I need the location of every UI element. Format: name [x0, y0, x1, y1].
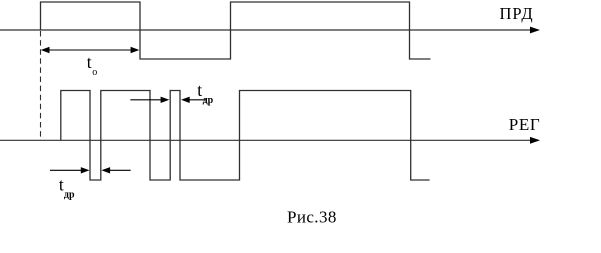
svg-text:др: др: [64, 190, 75, 201]
svg-text:ПРД: ПРД: [500, 4, 534, 23]
svg-text:t: t: [87, 52, 92, 72]
svg-text:о: о: [92, 67, 97, 78]
svg-text:t: t: [197, 80, 202, 100]
svg-text:РЕГ: РЕГ: [509, 115, 541, 134]
svg-text:др: др: [203, 95, 214, 106]
svg-text:Рис.38: Рис.38: [287, 207, 337, 226]
